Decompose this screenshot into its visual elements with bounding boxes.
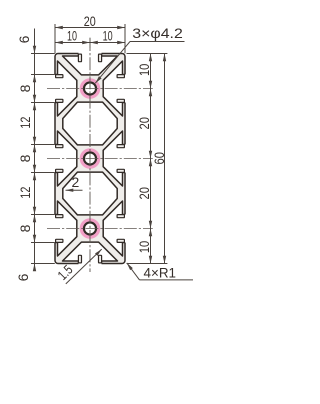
dim 2 (web thickness) leader <box>66 189 83 191</box>
svg-text:1.5: 1.5 <box>55 262 76 283</box>
octagon cavity 1 <box>63 102 117 145</box>
left extension line 1 <box>31 53 55 55</box>
left extension line 3 <box>31 102 55 104</box>
T-slot cavity right cell2 <box>103 131 125 186</box>
extension line left-top <box>54 24 56 53</box>
left extension line 8 <box>31 263 55 265</box>
left extension line 6 <box>31 214 55 216</box>
left extension line 4 <box>31 144 55 146</box>
slot lip right-bottom cell2 <box>117 169 124 172</box>
svg-text:6: 6 <box>15 273 31 281</box>
left extension line 2 <box>31 74 55 76</box>
svg-text:20: 20 <box>136 117 152 130</box>
extension line top-right <box>127 53 168 55</box>
left dimension chain line <box>34 29 36 272</box>
svg-text:20: 20 <box>136 187 152 200</box>
slot lip left-bottom cell3 <box>56 239 63 242</box>
slot lip right-top cell3 <box>117 215 124 218</box>
slot lip left-bottom cell2 <box>56 169 63 172</box>
T-slot cavity right cell3 <box>103 201 125 256</box>
svg-text:2: 2 <box>72 174 80 190</box>
profile material silhouette <box>55 54 125 264</box>
svg-text:10: 10 <box>103 28 113 44</box>
T-slot cavity left cell3 <box>55 201 77 256</box>
hole phi4.2 #3 <box>84 222 96 234</box>
horizontal centerline hole 1 <box>47 88 153 90</box>
arrow 6-top <box>33 46 36 54</box>
svg-text:10: 10 <box>136 64 152 76</box>
slot lip bottom-left <box>78 255 81 263</box>
left extension line 5 <box>31 172 55 174</box>
svg-text:60: 60 <box>151 152 167 165</box>
svg-text:8: 8 <box>17 154 33 162</box>
octagon cavity 2 <box>63 172 117 215</box>
svg-text:8: 8 <box>17 224 33 232</box>
extension line right-top <box>124 24 126 53</box>
hole phi4.2 #1 <box>84 82 96 94</box>
T-slot cavity right cell1 <box>103 61 125 116</box>
slot lip left-top cell2 <box>56 145 63 148</box>
right dimension chain line <box>150 54 152 264</box>
T-slot cavity left cell1 <box>55 61 77 116</box>
svg-text:8: 8 <box>17 84 33 92</box>
slot lip right-bottom cell3 <box>117 239 124 242</box>
slot lip bottom-right <box>99 255 102 263</box>
dimension line 60 <box>164 54 166 264</box>
svg-text:20: 20 <box>84 13 96 29</box>
center tick 10/10 <box>89 38 91 48</box>
hole highlight 2 <box>81 150 98 167</box>
T-slot cavity top <box>63 54 118 75</box>
dimension line 10/10 (top) <box>55 42 125 44</box>
horizontal centerline hole 3 <box>47 228 153 230</box>
slot lip left-top cell1 <box>56 75 63 78</box>
horizontal centerline hole 2 <box>47 158 153 160</box>
svg-text:6: 6 <box>16 35 32 43</box>
T-slot cavity left cell2 <box>55 131 77 186</box>
svg-text:4×R1: 4×R1 <box>144 264 177 280</box>
left extension line 7 <box>31 242 55 244</box>
vertical centerline <box>89 38 91 272</box>
slot lip left-bottom cell1 <box>56 99 63 102</box>
slot lip top-right <box>99 54 102 62</box>
leader 1.5 <box>66 249 102 284</box>
slot lip top-left <box>78 54 81 62</box>
hole phi4.2 #2 <box>84 152 96 164</box>
slot lip right-top cell2 <box>117 145 124 148</box>
profile outer boundary <box>55 54 125 264</box>
slot lip left-top cell3 <box>56 215 63 218</box>
arrow 6-bottom-up <box>33 235 36 243</box>
leader 3xphi4.2 <box>130 41 185 43</box>
svg-text:12: 12 <box>17 186 33 198</box>
extension line bottom-right <box>127 263 168 265</box>
dimension line 20 (top) <box>55 27 125 29</box>
leader 4xR1 <box>140 279 194 281</box>
svg-text:3×φ4.2: 3×φ4.2 <box>132 26 183 41</box>
hole highlight 3 <box>81 220 98 237</box>
slot lip right-bottom cell1 <box>117 99 124 102</box>
svg-text:10: 10 <box>136 241 152 253</box>
slot lip right-top cell1 <box>117 75 124 78</box>
svg-text:12: 12 <box>17 116 33 128</box>
T-slot cavity bottom <box>63 242 118 263</box>
svg-text:10: 10 <box>67 28 77 44</box>
hole highlight 1 <box>81 80 98 97</box>
